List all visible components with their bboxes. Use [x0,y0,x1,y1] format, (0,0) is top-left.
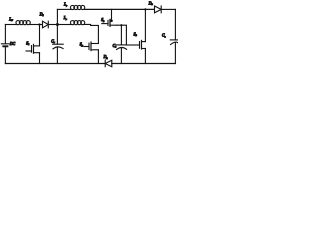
node: Cb tap [120,24,122,26]
svg-text:D3: D3 [148,1,154,6]
inductor Lr2 [70,21,84,25]
svg-text:S3: S3 [101,18,105,23]
wire: Lr2 to S2 drain corner [85,24,99,43]
wire: main input rail to inductor LF [5,24,16,26]
svg-text:S2: S2 [80,43,84,48]
wire: left vertical from source up to main rail [4,25,6,44]
svg-text:Lr: Lr [63,3,67,8]
diode D2 [105,60,112,66]
transistor S1 [26,44,40,63]
capacitor Co [170,40,178,64]
capacitor Cr [53,44,64,63]
wire: right edge down to output cap [174,9,176,40]
wire: D1 cathode to node A [48,24,57,26]
battery DC source [1,44,9,64]
svg-text:S1: S1 [26,41,29,46]
wire: S1 drain from main rail [39,25,41,46]
node A junction dot [56,23,59,26]
node: S4 drain tap on top rail [144,8,146,10]
wire: top rail to inductor Lr1 [57,8,70,10]
wire: D3 cathode to right edge corner [161,8,175,10]
wire: S4 gate lead [126,44,139,46]
node: S1 drain tap [38,23,40,25]
diode D1 [43,21,49,28]
transistor S2 [84,42,98,64]
svg-text:LF: LF [8,17,13,22]
inductor Lr1 [70,5,84,9]
inductor LF [16,21,30,25]
wire: S3 drain from top rail [111,9,113,20]
svg-text:S4: S4 [134,32,138,37]
wire: LF to diode D1 [30,24,43,26]
svg-text:Cr: Cr [51,39,55,44]
svg-text:D2: D2 [103,55,109,60]
svg-text:D1: D1 [39,12,44,17]
transistor S3 [102,19,117,26]
wire: top rail from Lr1 to diode D3 [85,8,155,10]
wire: bottom rail right of D2 [112,63,176,65]
wire: node A down to capacitor Cr [56,25,58,45]
transistor S4 [140,9,146,63]
svg-text:DC: DC [9,42,16,46]
wire: S3 source to corner and down [117,25,126,45]
svg-text:Lr: Lr [63,16,67,21]
diode D3 [155,6,162,13]
wire: node A up to top rail [56,9,58,24]
wire: node A to inductor Lr2 [57,24,70,26]
wire: bottom rail left of D2 [5,63,105,65]
node: S3 drain dot [110,20,113,23]
capacitor Cb [116,25,126,63]
svg-text:Co: Co [162,34,167,39]
